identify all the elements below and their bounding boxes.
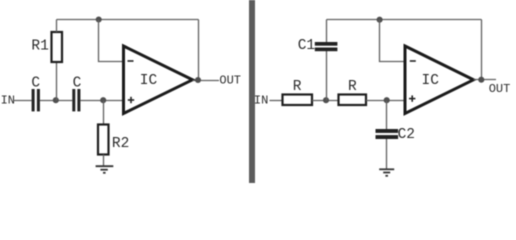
pin + (non-inverting) <box>128 99 134 101</box>
svg-text:C: C <box>73 76 82 92</box>
wire C to op-amp + input <box>80 100 123 102</box>
svg-text:C1: C1 <box>298 38 315 54</box>
svg-text:R1: R1 <box>31 38 48 54</box>
wire C to node A <box>40 100 72 102</box>
wire IN to R <box>270 100 283 102</box>
wire feedback from rail down to output <box>198 20 200 81</box>
svg-text:IN: IN <box>1 94 15 108</box>
wire R to op-amp + input (right) <box>366 100 405 102</box>
wire node B down to C2 <box>386 101 388 130</box>
divider bar <box>249 0 255 183</box>
svg-text:OUT: OUT <box>219 74 241 88</box>
capacitor C (first, series input cap) <box>31 76 40 112</box>
node B junction dot (right) <box>384 97 390 103</box>
resistor R1 <box>31 32 62 62</box>
capacitor C1 <box>298 38 338 54</box>
resistor R (second) <box>339 79 367 105</box>
wire output stub <box>193 80 220 82</box>
svg-text:R: R <box>293 79 302 95</box>
wire output stub (right) <box>474 79 497 81</box>
junction dot on rail <box>96 16 102 22</box>
capacitor C2 <box>376 127 416 143</box>
wire R1 top to rail <box>56 20 58 33</box>
svg-text:R2: R2 <box>112 136 129 152</box>
svg-text:R: R <box>348 79 357 95</box>
wire R to node A <box>312 100 339 102</box>
resistor R (first) <box>283 79 313 105</box>
ground (left) <box>96 166 114 173</box>
resistor R2 <box>98 125 129 155</box>
svg-text:C2: C2 <box>398 127 415 143</box>
wire C1 top to rail <box>326 20 328 43</box>
wire node A up to C1 <box>326 51 328 101</box>
wire top feedback rail (right) <box>327 19 482 21</box>
node A junction dot (right) <box>323 97 329 103</box>
node A junction dot <box>53 97 59 103</box>
svg-text:IN: IN <box>254 94 268 108</box>
svg-text:IC: IC <box>140 73 158 89</box>
svg-text:IC: IC <box>422 73 440 89</box>
svg-text:OUT: OUT <box>489 82 511 96</box>
wire rail down to inverting input (right) <box>380 20 406 62</box>
pin - (inverting) <box>128 60 134 62</box>
wire top feedback rail <box>57 19 199 21</box>
svg-text:C: C <box>31 76 40 92</box>
node B junction dot <box>100 97 106 103</box>
wire IN to C <box>14 100 32 102</box>
wire R2 to ground <box>103 155 105 167</box>
wire feedback from rail down to output (right) <box>481 20 483 80</box>
wire node B down to R2 <box>103 101 105 125</box>
node OUT junction dot (right) <box>478 77 484 83</box>
wire C2 to ground <box>386 139 388 169</box>
pin - (inverting) <box>410 60 416 62</box>
op-amp U1 (IC) <box>124 46 193 114</box>
wire node A up to R1 <box>56 62 58 101</box>
wire rail down to inverting input <box>99 20 124 62</box>
capacitor C (second, series cap) <box>72 76 81 112</box>
node OUT junction dot <box>195 77 201 83</box>
ground (right) <box>379 169 394 176</box>
op-amp U2 (IC) <box>405 46 474 114</box>
pin + (non-inverting) <box>409 98 415 100</box>
junction dot on rail (right) <box>377 17 383 23</box>
